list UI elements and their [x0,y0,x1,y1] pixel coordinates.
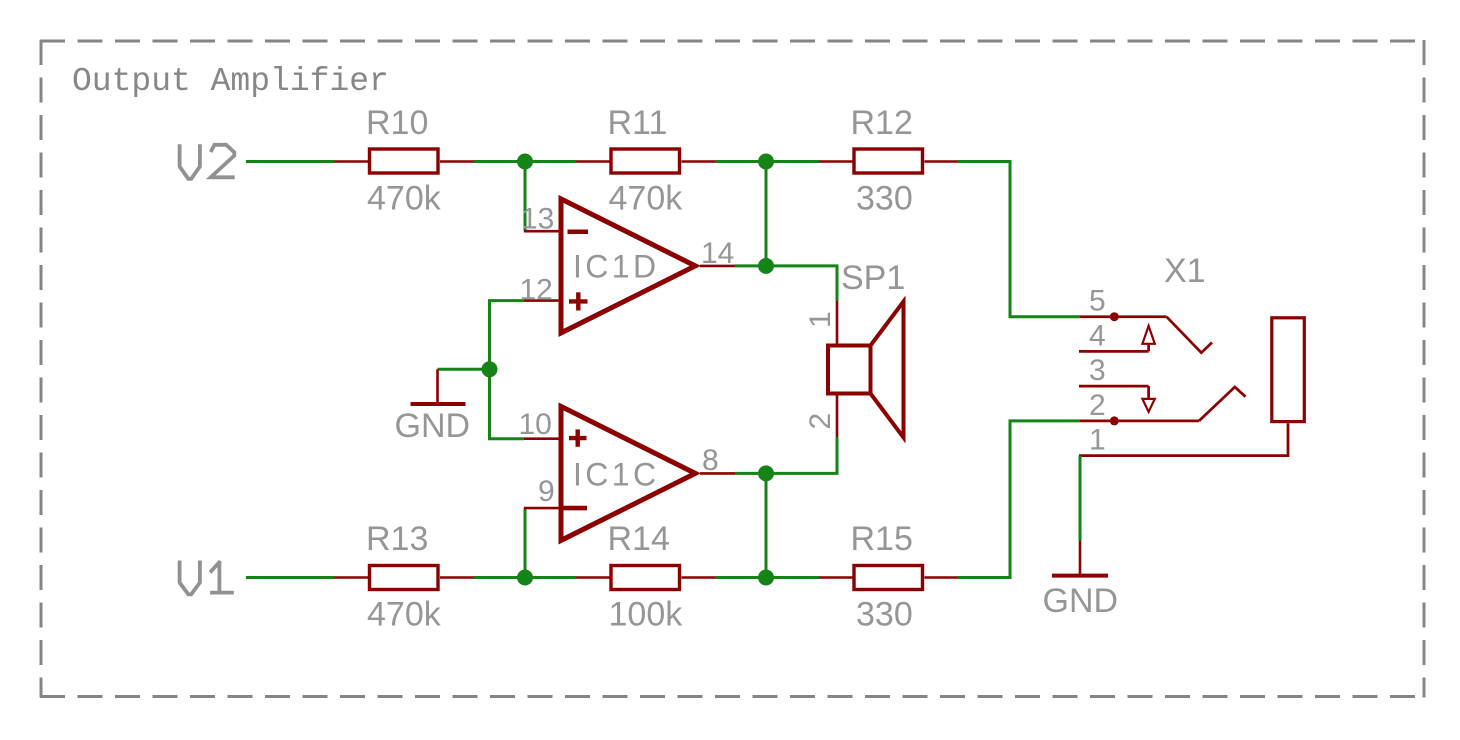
resistor R10 [335,104,474,218]
svg-text:1: 1 [1089,424,1106,457]
pin 4 [1079,350,1149,353]
wire GND stub [438,368,490,371]
svg-text:470k: 470k [367,180,442,218]
svg-text:5: 5 [1089,285,1106,318]
ground GND2 [1043,541,1119,620]
svg-text:R11: R11 [608,104,668,142]
pin 5 [1080,315,1167,318]
svg-text:470k: 470k [367,596,442,634]
wire junction to R15 net vertical [765,473,768,577]
svg-text:100k: 100k [609,596,684,634]
junction IC1C output [758,465,774,481]
pin 1 [836,301,839,344]
wire R15 to X1 pin 2 [958,421,1080,578]
arrow up [1142,326,1154,344]
junction at R10/IC1D pin13 [517,154,533,170]
svg-text:8: 8 [702,444,719,477]
arrow down [1142,399,1154,412]
svg-text:Output Amplifier: Output Amplifier [72,63,389,100]
svg-text:10: 10 [519,408,552,441]
pin 1 [1079,423,1288,455]
sleeve [1272,318,1305,422]
junction at R13/IC1C pin9 [517,570,533,586]
op-amp IC1D [520,199,736,333]
wire junction to R12 net vertical [765,162,768,266]
svg-text:R14: R14 [608,520,670,558]
svg-text:9: 9 [538,475,555,508]
wire V1 to R13 [246,576,335,579]
svg-text:14: 14 [701,237,734,270]
svg-text:GND: GND [395,407,471,445]
svg-text:X1: X1 [1164,252,1206,290]
junction GND net [482,361,498,377]
wire R14 to R15 [715,576,819,579]
resistor R12 [819,104,958,218]
svg-text:R12: R12 [851,104,913,142]
svg-text:IC1C: IC1C [573,457,660,493]
wire junction R10 down to IC1D pin13 [524,162,527,232]
switch arm bottom [1199,387,1246,421]
net label V1 [180,561,234,595]
svg-text:SP1: SP1 [841,259,905,297]
pin 2 [1080,420,1199,423]
resistor R13 [335,520,474,634]
net label V2 [180,144,235,179]
wire SP1 pin2 to IC1C pin8 [735,437,837,473]
pin 5 dot [1110,312,1119,321]
wire R12 to X1 pin 5 [958,162,1080,317]
svg-text:13: 13 [521,203,554,236]
pin 12 [524,299,559,302]
junction at R11/R12 [758,154,774,170]
wire X1 pin1 to GND [1079,456,1082,541]
svg-text:2: 2 [804,413,837,430]
wire IC1D pin14 to SP1 pin1 [735,266,837,301]
minus input mark [564,506,588,511]
svg-text:R13: R13 [366,520,428,558]
pin 13 [524,230,559,233]
wire IC1D pin12 to GND net [490,301,525,439]
wire R10 to R11 [474,160,577,163]
wire V2 to R10 [246,160,335,163]
svg-text:IC1D: IC1D [573,249,660,285]
junction at R14/R15 [758,570,774,586]
svg-text:GND: GND [1043,582,1119,620]
connector X1 [1079,252,1304,457]
wire junction R13 up to IC1C pin9 [524,508,527,577]
svg-text:330: 330 [856,596,913,634]
plus input mark [569,429,587,446]
wire R13 to R14 [474,576,577,579]
plus input mark [569,292,588,310]
svg-text:3: 3 [1089,354,1106,387]
resistor R11 [576,104,715,218]
pin 2 [836,396,839,438]
speaker SP1 [804,259,905,438]
svg-text:R15: R15 [851,520,913,558]
svg-text:470k: 470k [609,180,684,218]
minus input mark [568,229,589,234]
svg-text:4: 4 [1089,319,1106,352]
wire R11 to R12 [715,160,819,163]
pin 2 dot [1110,416,1119,425]
svg-text:R10: R10 [366,104,428,142]
junction IC1D output [758,258,774,274]
pin 10 [524,437,559,440]
svg-text:12: 12 [520,274,553,307]
pin 9 [524,507,559,510]
resistor R15 [819,520,958,634]
svg-text:2: 2 [1089,389,1106,422]
switch arm top [1167,317,1213,353]
svg-text:330: 330 [856,180,913,218]
pin 14 [700,265,735,268]
pin 3 [1079,385,1149,388]
resistor R14 [576,520,715,634]
svg-text:1: 1 [804,311,837,328]
horn [871,302,904,438]
ground GND1 [395,369,471,445]
op-amp IC1C [519,406,736,540]
pin 8 [700,472,735,475]
